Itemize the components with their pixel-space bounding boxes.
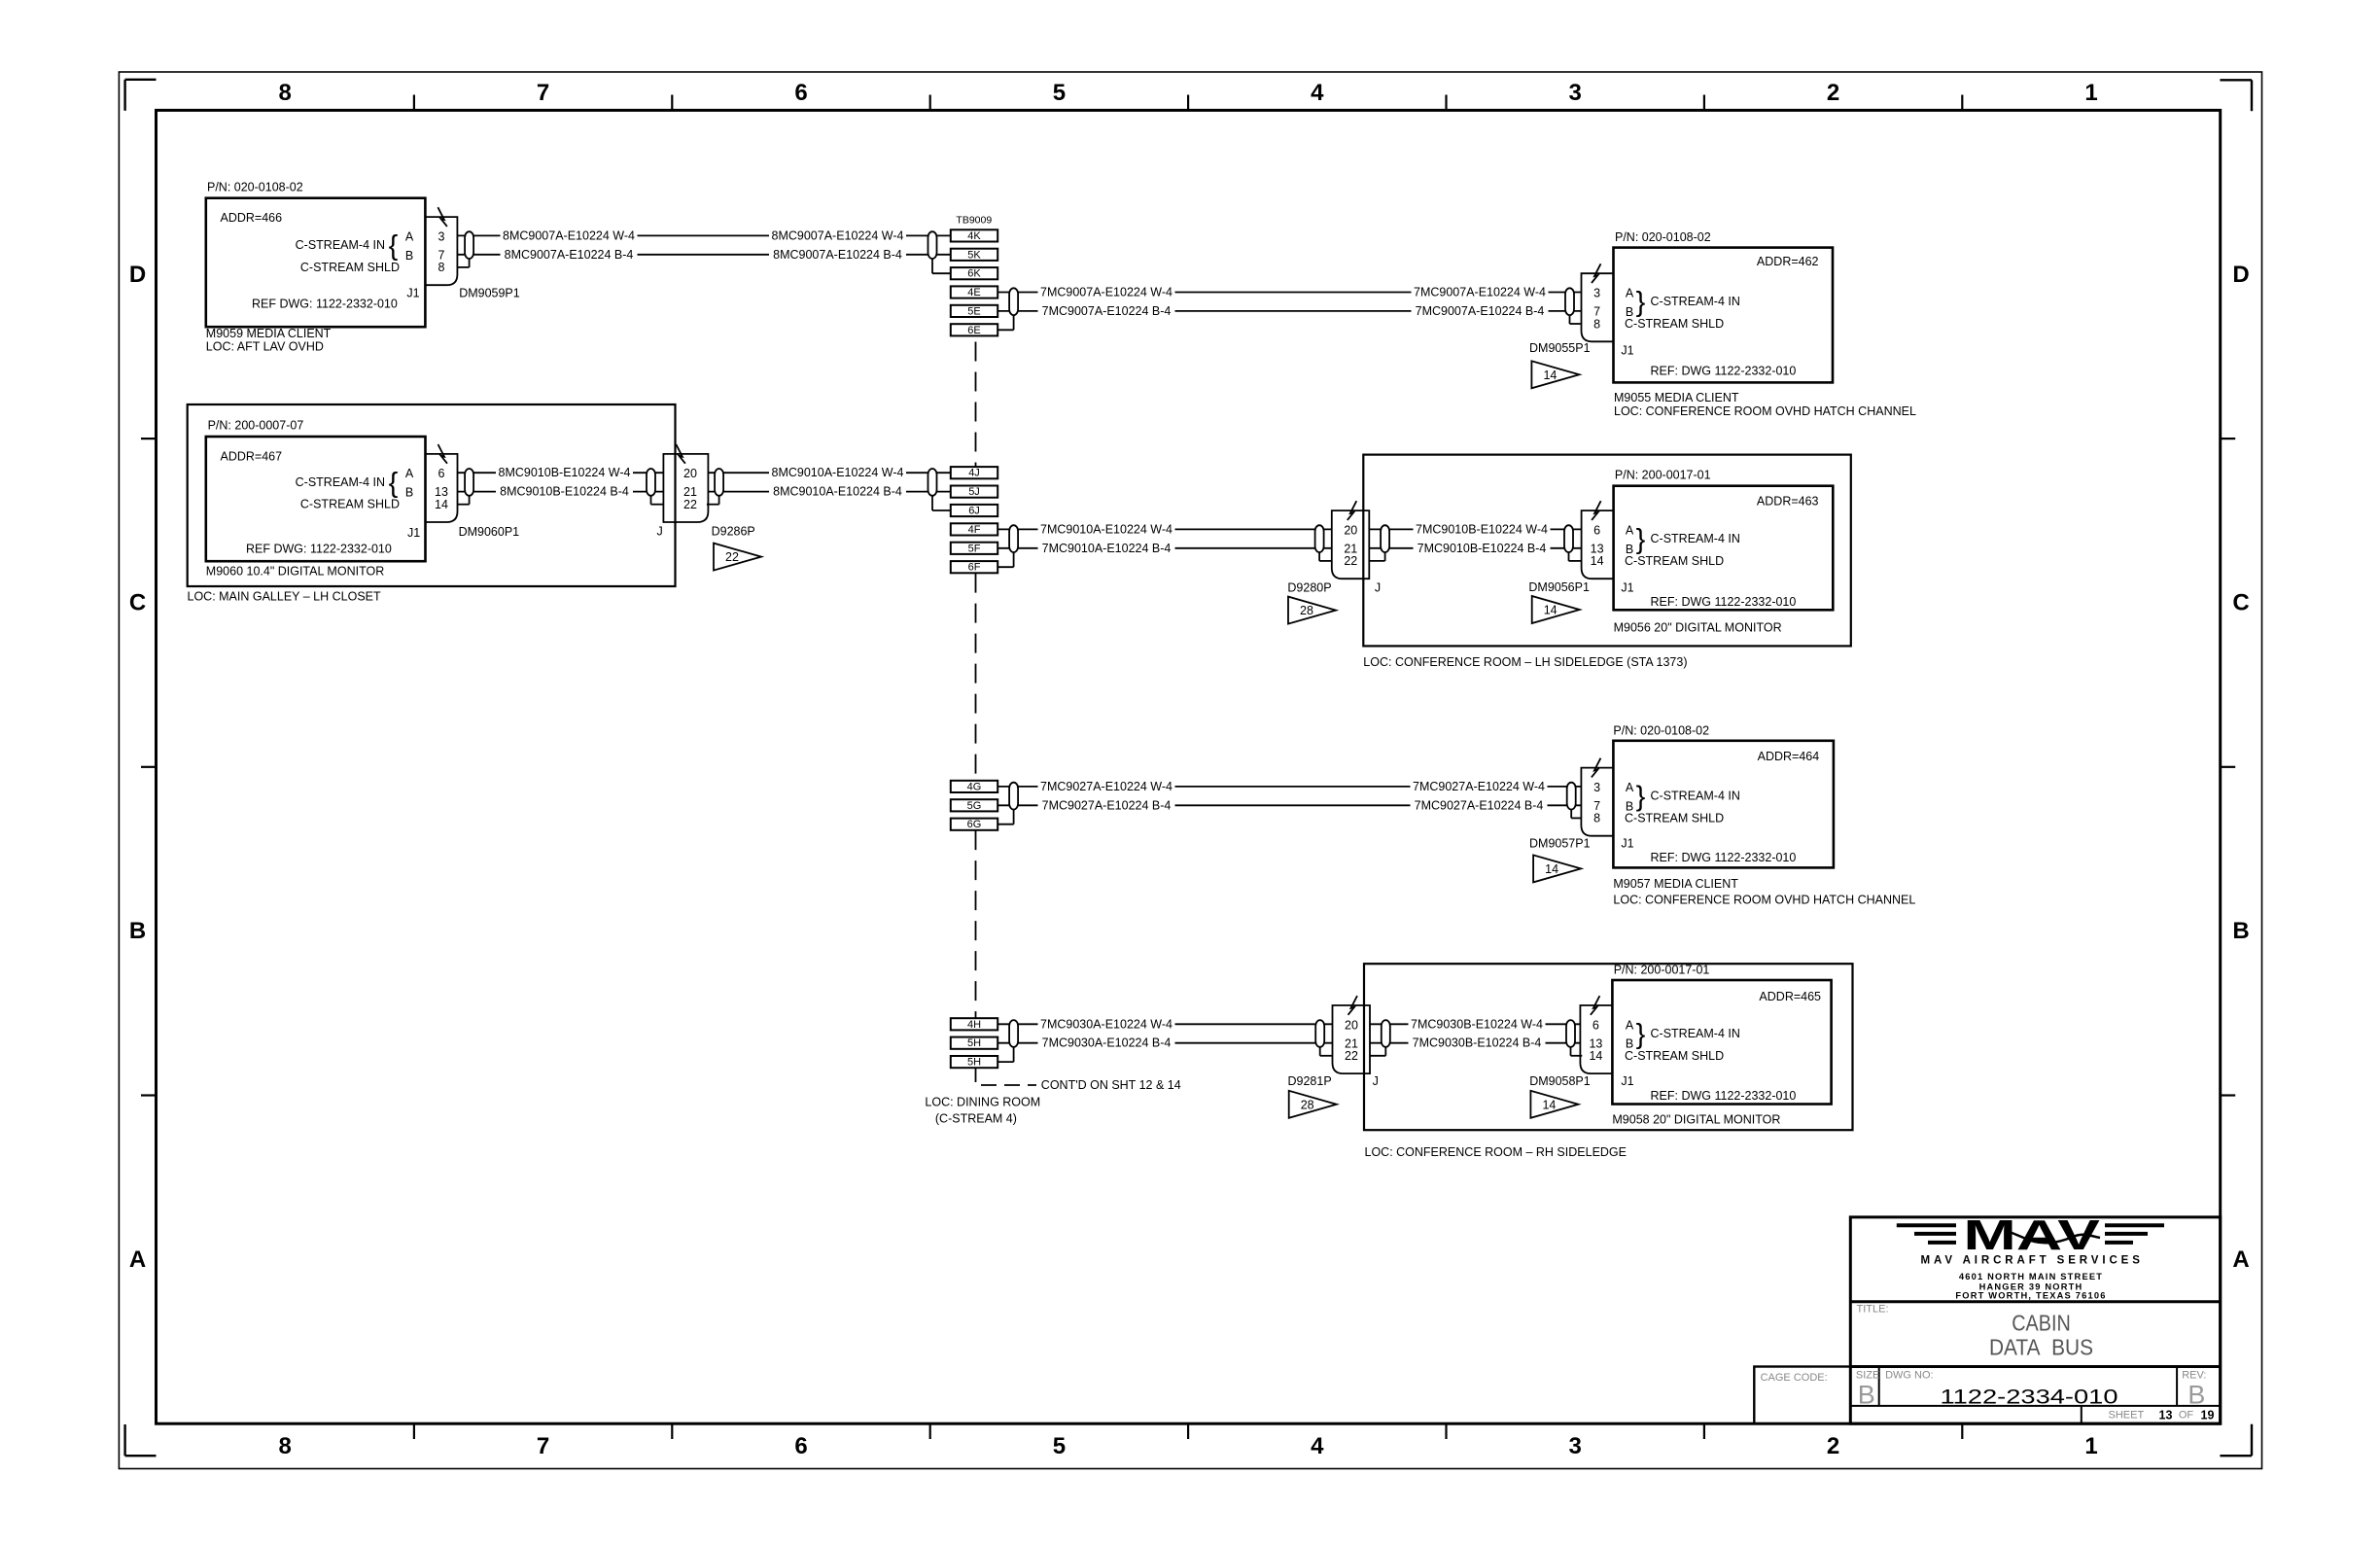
connector D9280P / J at enclosure edge — [1332, 510, 1370, 579]
svg-text:C-STREAM SHLD: C-STREAM SHLD — [1625, 1049, 1724, 1063]
svg-text:6E: 6E — [967, 325, 980, 336]
terminal 5G — [951, 799, 997, 811]
svg-text:6: 6 — [1592, 1018, 1599, 1032]
connector DM9055P1 plug — [1582, 273, 1614, 341]
wire 8MC9007A-E10224 B-4 — [457, 254, 950, 256]
wire label 8MC9010B-E10224 W-4 — [496, 466, 633, 480]
svg-text:REF: DWG 1122-2332-010: REF: DWG 1122-2332-010 — [1651, 364, 1797, 377]
wire 7MC9010B-E10224 W-4 — [1369, 528, 1581, 530]
connector DM9058P1 plug — [1580, 1005, 1612, 1073]
svg-text:14: 14 — [1543, 369, 1557, 382]
svg-text:CONT'D ON SHT 12 & 14: CONT'D ON SHT 12 & 14 — [1041, 1078, 1181, 1092]
wire label 7MC9030A-E10224 W-4 — [1038, 1017, 1175, 1032]
terminal 5K — [951, 249, 997, 261]
wire 7MC9030B-E10224 B-4 — [1370, 1042, 1580, 1044]
svg-text:4G: 4G — [967, 781, 982, 792]
rev box divider — [2176, 1367, 2178, 1406]
corner bracket bottom-right — [2220, 1455, 2252, 1457]
svg-text:ADDR=467: ADDR=467 — [221, 450, 283, 464]
sheet reference flag 14 — [1531, 361, 1579, 388]
monitor M9060 body — [206, 437, 426, 561]
svg-text:7MC9010B-E10224 B-4: 7MC9010B-E10224 B-4 — [1417, 542, 1547, 555]
zone tick bottom — [1703, 1423, 1705, 1439]
svg-text:LOC: CONFERENCE ROOM OVHD HATC: LOC: CONFERENCE ROOM OVHD HATCH CHANNEL — [1613, 894, 1915, 907]
svg-text:REF DWG: 1122-2332-010: REF DWG: 1122-2332-010 — [246, 543, 392, 556]
shield drop wire — [997, 566, 1013, 568]
dashed continuation wire to CONT'D note — [981, 1084, 1036, 1086]
wire label 7MC9027A-E10224 W-4 (1) — [1038, 779, 1175, 793]
svg-text:5: 5 — [1053, 1433, 1066, 1459]
row tick left — [141, 1094, 157, 1096]
svg-text:22: 22 — [1344, 554, 1357, 568]
corner bracket bottom-left — [125, 1455, 157, 1457]
svg-text:20: 20 — [683, 467, 697, 480]
svg-text:5H: 5H — [967, 1057, 981, 1069]
shield jog wire — [1571, 817, 1581, 819]
svg-text:7: 7 — [537, 1433, 549, 1459]
svg-text:14: 14 — [1591, 554, 1604, 568]
svg-text:A: A — [1626, 1018, 1634, 1032]
svg-text:13: 13 — [2159, 1409, 2173, 1422]
terminal 4H — [951, 1018, 997, 1030]
svg-text:DATA BUS: DATA BUS — [1989, 1335, 2093, 1360]
wire label 8MC9007A-E10224 B-4 (2) — [769, 247, 906, 262]
wire 7MC9030A-E10224 B-4 — [997, 1042, 1332, 1044]
corner bracket top-right — [2220, 79, 2252, 81]
svg-text:4F: 4F — [968, 524, 981, 536]
svg-text:2: 2 — [1827, 80, 1839, 106]
svg-text:P/N: 020-0108-02: P/N: 020-0108-02 — [1615, 230, 1711, 244]
zone tick bottom — [1445, 1423, 1447, 1439]
wire label 8MC9010B-E10224 B-4 — [496, 484, 633, 499]
svg-text:P/N: 020-0108-02: P/N: 020-0108-02 — [207, 180, 303, 193]
svg-text:4: 4 — [1311, 80, 1324, 106]
svg-text:J1: J1 — [1621, 581, 1633, 595]
svg-text:C-STREAM-4 IN: C-STREAM-4 IN — [1651, 790, 1740, 803]
media client M9059 body — [206, 198, 426, 328]
shield jog wire — [651, 504, 664, 506]
wire label 8MC9010A-E10224 W-4 — [769, 466, 906, 480]
svg-text:REF DWG: 1122-2332-010: REF DWG: 1122-2332-010 — [252, 298, 398, 311]
svg-text:M9058 20" DIGITAL MONITOR: M9058 20" DIGITAL MONITOR — [1612, 1113, 1780, 1127]
svg-text:4J: 4J — [968, 468, 980, 479]
shield drop wire — [997, 1061, 1013, 1063]
svg-text:4: 4 — [1311, 1433, 1324, 1459]
row tick left — [141, 766, 157, 768]
svg-text:5K: 5K — [967, 249, 981, 261]
svg-text:DM9056P1: DM9056P1 — [1528, 580, 1590, 594]
svg-text:CABIN: CABIN — [2012, 1311, 2071, 1336]
shield drop wire — [997, 329, 1013, 331]
wire 7MC9030B-E10224 W-4 — [1370, 1023, 1580, 1025]
connector J / D9286P at enclosure edge — [663, 454, 708, 522]
row tick right — [2221, 766, 2236, 768]
svg-text:8: 8 — [279, 80, 292, 106]
terminal 6K — [951, 267, 997, 279]
svg-text:C-STREAM-4 IN: C-STREAM-4 IN — [296, 475, 385, 489]
svg-text:SHEET: SHEET — [2109, 1410, 2145, 1422]
zone tick top — [929, 95, 931, 111]
svg-text:6: 6 — [1593, 523, 1600, 537]
svg-text:B: B — [2187, 1381, 2205, 1410]
svg-text:J: J — [1375, 580, 1381, 594]
svg-text:7MC9027A-E10224 B-4: 7MC9027A-E10224 B-4 — [1042, 798, 1172, 812]
svg-text:A: A — [2232, 1247, 2249, 1273]
svg-text:C-STREAM-4 IN: C-STREAM-4 IN — [1651, 1027, 1740, 1040]
wire 8MC9010B-E10224 B-4 — [458, 491, 664, 493]
svg-text:7MC9010A-E10224 W-4: 7MC9010A-E10224 W-4 — [1040, 522, 1172, 536]
zone tick bottom — [929, 1423, 931, 1439]
wire 8MC9010A-E10224 B-4 — [708, 491, 951, 493]
svg-text:D: D — [129, 262, 146, 288]
svg-text:B: B — [405, 486, 413, 500]
wire label 7MC9030A-E10224 B-4 — [1038, 1036, 1175, 1050]
svg-text:DM9058P1: DM9058P1 — [1529, 1074, 1591, 1088]
svg-text:8MC9010A-E10224 B-4: 8MC9010A-E10224 B-4 — [773, 485, 902, 499]
svg-text:5G: 5G — [967, 800, 982, 812]
terminal 5E — [951, 305, 997, 317]
svg-text:6: 6 — [794, 80, 807, 106]
svg-text:B: B — [405, 249, 413, 263]
wire label 7MC9027A-E10224 B-4 (2) — [1411, 798, 1548, 813]
svg-text:C-STREAM-4 IN: C-STREAM-4 IN — [296, 238, 385, 252]
svg-text:28: 28 — [1300, 604, 1313, 617]
wire label 7MC9027A-E10224 W-4 (2) — [1411, 779, 1548, 793]
splice twist symbols (overlay) — [465, 231, 473, 259]
terminal 6F — [951, 561, 997, 573]
zone tick top — [413, 95, 415, 111]
svg-text:}: } — [1636, 1019, 1646, 1050]
wire 8MC9007A-E10224 W-4 — [457, 234, 950, 236]
svg-text:C-STREAM SHLD: C-STREAM SHLD — [1625, 554, 1724, 568]
wire 7MC9007A-E10224 W-4 — [997, 292, 1581, 294]
svg-text:4H: 4H — [967, 1019, 981, 1031]
svg-text:14: 14 — [1545, 862, 1558, 876]
svg-text:J1: J1 — [406, 287, 419, 300]
wire label 7MC9010A-E10224 W-4 — [1038, 522, 1175, 537]
wire label 8MC9007A-E10224 B-4 (1) — [501, 247, 638, 262]
svg-text:3: 3 — [1569, 1433, 1582, 1459]
zone tick bottom — [1187, 1423, 1189, 1439]
shield jog wire — [1369, 560, 1384, 562]
wire label 7MC9030B-E10224 W-4 — [1409, 1017, 1546, 1032]
dashed bus line (C-STREAM 4) — [975, 342, 977, 467]
wire label 8MC9010A-E10224 B-4 — [769, 484, 906, 499]
svg-text:DM9057P1: DM9057P1 — [1529, 837, 1591, 851]
svg-text:5H: 5H — [967, 1037, 981, 1049]
row tick right — [2221, 1094, 2236, 1096]
svg-text:D9286P: D9286P — [712, 524, 755, 538]
svg-text:D9280P: D9280P — [1287, 580, 1331, 594]
svg-text:DWG NO:: DWG NO: — [1885, 1370, 1934, 1382]
connector DM9057P1 plug — [1581, 768, 1613, 836]
svg-text:5: 5 — [1053, 80, 1066, 106]
svg-text:7MC9030A-E10224 W-4: 7MC9030A-E10224 W-4 — [1040, 1017, 1172, 1031]
zone tick bottom — [671, 1423, 673, 1439]
zone tick top — [671, 95, 673, 111]
svg-text:{: { — [389, 468, 399, 499]
svg-text:B: B — [2232, 918, 2249, 944]
svg-text:6F: 6F — [968, 562, 981, 574]
svg-text:28: 28 — [1301, 1098, 1314, 1111]
shield drop wire — [931, 259, 933, 273]
svg-text:20: 20 — [1344, 523, 1357, 537]
svg-text:REF: DWG 1122-2332-010: REF: DWG 1122-2332-010 — [1651, 595, 1797, 609]
MAV logo swoosh — [2007, 1231, 2100, 1243]
wire label 7MC9027A-E10224 B-4 (1) — [1038, 798, 1175, 813]
svg-text:MAV AIRCRAFT SERVICES: MAV AIRCRAFT SERVICES — [1921, 1255, 2143, 1267]
svg-text:J: J — [656, 524, 662, 538]
svg-text:}: } — [1636, 287, 1646, 318]
svg-text:7MC9030B-E10224 W-4: 7MC9030B-E10224 W-4 — [1411, 1017, 1543, 1031]
shield drop wire — [931, 496, 933, 510]
wire 7MC9027A-E10224 B-4 — [997, 804, 1581, 806]
sheet reference flag 22 — [714, 544, 761, 571]
svg-text:TB9009: TB9009 — [956, 214, 992, 226]
svg-text:3: 3 — [1593, 287, 1600, 300]
inner border frame — [157, 110, 2221, 1423]
svg-text:A: A — [405, 467, 414, 480]
terminal 5F — [951, 543, 997, 554]
terminal 6J — [951, 505, 997, 516]
svg-text:LOC: CONFERENCE ROOM OVHD HATC: LOC: CONFERENCE ROOM OVHD HATCH CHANNEL — [1614, 404, 1916, 418]
wire label 8MC9007A-E10224 W-4 (2) — [769, 228, 906, 243]
title block logo/title divider — [1850, 1300, 2220, 1303]
wire 7MC9027A-E10224 W-4 — [997, 786, 1581, 788]
terminal 6E — [951, 324, 997, 335]
terminal 5J — [951, 486, 997, 498]
svg-text:22: 22 — [1345, 1049, 1358, 1063]
svg-text:7MC9007A-E10224 W-4: 7MC9007A-E10224 W-4 — [1040, 286, 1172, 299]
zone tick top — [1961, 95, 1963, 111]
svg-text:TITLE:: TITLE: — [1857, 1303, 1889, 1315]
wire label 7MC9007A-E10224 W-4 (2) — [1412, 285, 1549, 299]
shield jog wire — [1569, 560, 1582, 562]
media client M9057 body — [1613, 741, 1834, 868]
shield jog wire — [707, 504, 719, 506]
svg-text:20: 20 — [1345, 1018, 1358, 1032]
svg-text:8MC9007A-E10224 B-4: 8MC9007A-E10224 B-4 — [773, 248, 902, 262]
terminal 5H — [951, 1037, 997, 1049]
media client M9055 body — [1614, 248, 1834, 383]
svg-text:8: 8 — [1593, 317, 1600, 331]
svg-text:ADDR=466: ADDR=466 — [221, 211, 283, 225]
zone tick top — [1703, 95, 1705, 111]
svg-text:REF: DWG 1122-2332-010: REF: DWG 1122-2332-010 — [1651, 851, 1797, 864]
wire label 7MC9007A-E10224 B-4 (2) — [1412, 303, 1549, 318]
svg-text:1122-2334-010: 1122-2334-010 — [1941, 1386, 2118, 1409]
connector D9281P / J at enclosure edge — [1333, 1005, 1371, 1073]
svg-text:6: 6 — [438, 467, 445, 480]
svg-text:22: 22 — [725, 550, 739, 564]
svg-text:7MC9027A-E10224 B-4: 7MC9027A-E10224 B-4 — [1415, 798, 1544, 812]
title block title/number divider — [1850, 1365, 2220, 1368]
svg-text:C-STREAM SHLD: C-STREAM SHLD — [1625, 811, 1724, 825]
svg-text:22: 22 — [683, 498, 697, 511]
svg-text:B: B — [1858, 1381, 1875, 1410]
row tick right — [2221, 438, 2236, 439]
svg-text:CAGE CODE:: CAGE CODE: — [1761, 1372, 1828, 1384]
svg-text:4601 NORTH MAIN STREET: 4601 NORTH MAIN STREET — [1959, 1272, 2103, 1282]
size/dwg row divider — [1850, 1405, 2220, 1407]
svg-text:14: 14 — [1542, 1098, 1556, 1111]
svg-text:1: 1 — [2084, 80, 2097, 106]
svg-text:ADDR=462: ADDR=462 — [1757, 255, 1819, 268]
svg-text:LOC: AFT LAV OVHD: LOC: AFT LAV OVHD — [206, 340, 324, 354]
svg-text:M9057 MEDIA CLIENT: M9057 MEDIA CLIENT — [1613, 877, 1738, 891]
wire label 8MC9007A-E10224 W-4 (1) — [501, 228, 638, 243]
sheet reference flag 14 — [1532, 596, 1580, 623]
svg-text:A: A — [1626, 287, 1634, 300]
shield jog wire — [1320, 1055, 1333, 1057]
svg-text:C: C — [129, 590, 146, 616]
svg-text:C-STREAM SHLD: C-STREAM SHLD — [300, 261, 400, 274]
svg-text:C-STREAM-4 IN: C-STREAM-4 IN — [1651, 532, 1740, 545]
MAV logo speed lines left — [1897, 1223, 1956, 1227]
svg-text:5E: 5E — [967, 305, 980, 317]
shield jog wire — [458, 504, 470, 506]
terminal 4J — [951, 467, 997, 478]
svg-text:19: 19 — [2201, 1409, 2215, 1422]
svg-text:P/N: 200-0017-01: P/N: 200-0017-01 — [1614, 964, 1710, 977]
shield drop wire — [997, 824, 1013, 825]
svg-text:LOC: CONFERENCE ROOM – LH SIDE: LOC: CONFERENCE ROOM – LH SIDELEDGE (STA… — [1363, 655, 1687, 669]
title block frame — [1850, 1217, 2220, 1423]
MAV logo speed lines right — [2105, 1223, 2164, 1227]
wire 7MC9030A-E10224 W-4 — [997, 1023, 1332, 1025]
svg-text:C-STREAM SHLD: C-STREAM SHLD — [300, 498, 400, 511]
sheet reference flag 28 — [1288, 597, 1336, 624]
svg-text:8: 8 — [279, 1433, 292, 1459]
svg-text:6G: 6G — [967, 819, 982, 830]
wire 7MC9010B-E10224 B-4 — [1369, 547, 1581, 549]
svg-text:C-STREAM-4 IN: C-STREAM-4 IN — [1651, 295, 1740, 308]
wire 7MC9010A-E10224 B-4 — [997, 547, 1332, 549]
svg-text:D: D — [2232, 262, 2249, 288]
svg-text:M9056 20" DIGITAL MONITOR: M9056 20" DIGITAL MONITOR — [1614, 621, 1782, 635]
shield jog wire — [1571, 1055, 1583, 1057]
svg-text:A: A — [405, 229, 414, 243]
zone tick bottom — [413, 1423, 415, 1439]
svg-text:8MC9010B-E10224 W-4: 8MC9010B-E10224 W-4 — [499, 466, 631, 479]
svg-text:7MC9030A-E10224 B-4: 7MC9030A-E10224 B-4 — [1042, 1036, 1172, 1050]
terminal 5H — [951, 1056, 997, 1068]
connector DM9056P1 plug — [1582, 510, 1614, 579]
wire 8MC9010A-E10224 W-4 — [708, 472, 951, 474]
digital monitor M9056 enclosure — [1363, 455, 1851, 647]
svg-text:J1: J1 — [407, 526, 420, 540]
zone tick top — [1187, 95, 1189, 111]
digital monitor M9060 enclosure — [188, 404, 676, 586]
svg-text:7MC9027A-E10224 W-4: 7MC9027A-E10224 W-4 — [1413, 780, 1545, 793]
sheet row divider — [2081, 1406, 2082, 1423]
svg-text:3: 3 — [1593, 781, 1600, 794]
svg-text:A: A — [129, 1247, 146, 1273]
corner bracket top-left — [125, 79, 157, 81]
zone tick top — [1445, 95, 1447, 111]
svg-text:7MC9010A-E10224 B-4: 7MC9010A-E10224 B-4 — [1042, 542, 1172, 555]
svg-text:8MC9007A-E10224 W-4: 8MC9007A-E10224 W-4 — [772, 228, 904, 242]
svg-text:8: 8 — [1593, 812, 1600, 825]
svg-text:J1: J1 — [1621, 1074, 1633, 1088]
svg-text:LOC: CONFERENCE ROOM – RH SIDE: LOC: CONFERENCE ROOM – RH SIDELEDGE — [1365, 1145, 1627, 1159]
svg-text:M9059 MEDIA CLIENT: M9059 MEDIA CLIENT — [206, 327, 332, 340]
terminal 6G — [951, 819, 997, 830]
svg-text:}: } — [1636, 782, 1646, 813]
svg-text:DM9060P1: DM9060P1 — [459, 525, 520, 539]
monitor M9058 body — [1612, 980, 1831, 1105]
svg-text:7MC9007A-E10224 B-4: 7MC9007A-E10224 B-4 — [1416, 304, 1545, 318]
svg-text:4E: 4E — [967, 287, 980, 298]
svg-text:7MC9027A-E10224 W-4: 7MC9027A-E10224 W-4 — [1040, 780, 1172, 793]
svg-text:M9055 MEDIA CLIENT: M9055 MEDIA CLIENT — [1614, 391, 1739, 404]
wire 7MC9007A-E10224 B-4 — [997, 310, 1581, 312]
svg-text:6K: 6K — [967, 268, 981, 280]
svg-text:B: B — [129, 918, 146, 944]
connector DM9059P1 plug — [425, 217, 457, 285]
shield jog wire — [1570, 323, 1581, 325]
svg-text:7: 7 — [537, 80, 549, 106]
wire label 7MC9007A-E10224 W-4 (1) — [1038, 285, 1175, 299]
svg-text:A: A — [1626, 781, 1634, 794]
svg-text:DM9055P1: DM9055P1 — [1529, 341, 1591, 355]
shield jog wire — [457, 266, 469, 268]
svg-text:C: C — [2232, 590, 2249, 616]
svg-text:1: 1 — [2084, 1433, 2097, 1459]
svg-text:8MC9010A-E10224 W-4: 8MC9010A-E10224 W-4 — [772, 466, 904, 479]
svg-text:A: A — [1626, 523, 1634, 537]
sheet reference flag 14 — [1533, 855, 1581, 882]
svg-text:8MC9007A-E10224 B-4: 8MC9007A-E10224 B-4 — [505, 248, 634, 262]
svg-text:D9281P: D9281P — [1288, 1074, 1332, 1088]
svg-text:P/N: 200-0007-07: P/N: 200-0007-07 — [208, 418, 304, 432]
svg-text:LOC: MAIN GALLEY – LH CLOSET: LOC: MAIN GALLEY – LH CLOSET — [188, 589, 382, 603]
svg-text:J1: J1 — [1621, 837, 1633, 851]
monitor M9056 body — [1614, 486, 1834, 611]
svg-text:ADDR=465: ADDR=465 — [1759, 990, 1821, 1003]
wire label 7MC9030B-E10224 B-4 — [1409, 1036, 1546, 1050]
size box divider — [1878, 1367, 1880, 1406]
svg-text:P/N: 020-0108-02: P/N: 020-0108-02 — [1613, 723, 1709, 737]
svg-text:5F: 5F — [968, 543, 981, 554]
connector DM9060P1 plug — [426, 454, 458, 522]
svg-text:ADDR=464: ADDR=464 — [1758, 750, 1820, 763]
svg-text:J: J — [1373, 1074, 1379, 1088]
svg-text:14: 14 — [1589, 1049, 1602, 1063]
svg-text:{: { — [389, 230, 399, 262]
svg-text:8MC9010B-E10224 B-4: 8MC9010B-E10224 B-4 — [500, 485, 629, 499]
svg-text:4K: 4K — [967, 230, 981, 242]
svg-text:7MC9007A-E10224 B-4: 7MC9007A-E10224 B-4 — [1042, 304, 1172, 318]
svg-text:P/N: 200-0017-01: P/N: 200-0017-01 — [1615, 469, 1711, 482]
svg-text:ADDR=463: ADDR=463 — [1757, 494, 1819, 508]
digital monitor M9058 enclosure — [1364, 964, 1853, 1130]
svg-text:M9060 10.4" DIGITAL MONITOR: M9060 10.4" DIGITAL MONITOR — [206, 565, 384, 579]
svg-text:5J: 5J — [968, 486, 980, 498]
zone tick bottom — [1961, 1423, 1963, 1439]
wire label 7MC9010A-E10224 B-4 — [1038, 541, 1175, 555]
cage code box — [1754, 1367, 1850, 1424]
svg-text:C-STREAM SHLD: C-STREAM SHLD — [1625, 317, 1724, 331]
terminal 4E — [951, 286, 997, 298]
svg-text:7MC9007A-E10224 W-4: 7MC9007A-E10224 W-4 — [1414, 286, 1546, 299]
svg-text:6J: 6J — [968, 506, 980, 517]
wire 7MC9010A-E10224 W-4 — [997, 528, 1332, 530]
svg-text:3: 3 — [1569, 80, 1582, 106]
row tick left — [141, 438, 157, 439]
terminal 4F — [951, 523, 997, 535]
svg-text:14: 14 — [1544, 604, 1557, 617]
